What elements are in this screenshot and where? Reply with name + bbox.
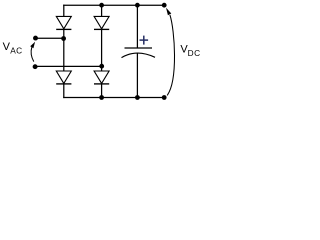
wire bottom rail xyxy=(63,97,164,99)
wire capacitor bottom lead xyxy=(136,53,138,97)
wire upper AC input xyxy=(36,37,64,39)
capacitor C1 plus polarity mark xyxy=(140,36,149,45)
VAC measurement arrow arc xyxy=(31,47,34,61)
svg-text:AC: AC xyxy=(10,46,22,56)
wire lower AC input xyxy=(35,65,102,67)
diode D4 bottom-right xyxy=(94,71,109,84)
wire top rail xyxy=(63,4,164,6)
node VDC- terminal xyxy=(162,95,167,100)
node upper AC / left column junction xyxy=(61,36,66,41)
node lower AC terminal xyxy=(33,64,38,69)
diode D1 top-left xyxy=(56,16,71,29)
node bottom rail / right column junction xyxy=(99,95,104,100)
wire left bridge column xyxy=(63,5,65,99)
node VDC+ terminal xyxy=(162,3,167,8)
VDC measurement arrow arc xyxy=(167,15,174,96)
node top rail / capacitor junction xyxy=(135,3,140,8)
node top rail / right column junction xyxy=(99,3,104,8)
svg-text:DC: DC xyxy=(188,48,201,58)
diode D3 bottom-left xyxy=(56,71,71,84)
node lower AC / right column junction xyxy=(99,64,104,69)
wire right bridge column xyxy=(101,5,103,97)
diode D2 top-right xyxy=(94,16,109,29)
node bottom rail / capacitor junction xyxy=(135,95,140,100)
VDC arrowhead xyxy=(166,8,171,16)
wire capacitor top lead xyxy=(136,5,138,48)
VAC arrowhead xyxy=(30,42,35,49)
capacitor C1 curved bottom plate xyxy=(122,53,156,58)
capacitor C1 top plate xyxy=(125,47,153,49)
node upper AC terminal xyxy=(33,36,38,41)
